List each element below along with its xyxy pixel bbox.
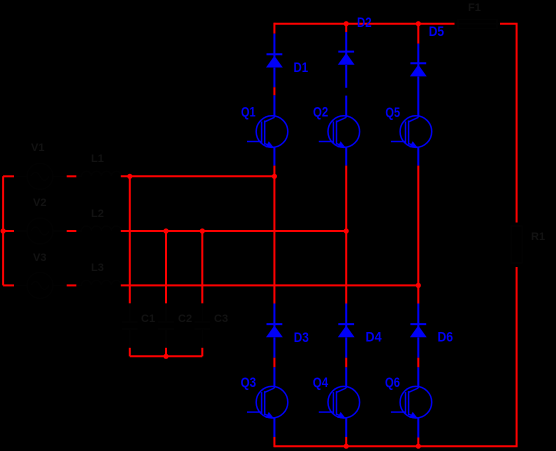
inductor L1 (near-black) xyxy=(76,171,121,176)
wire: leg1 red link D3-Q3 xyxy=(273,358,275,368)
svg-text:Q6: Q6 xyxy=(385,374,400,390)
wire: leg1 pin below Q3 xyxy=(273,418,275,437)
svg-text:V2: V2 xyxy=(33,197,46,209)
capacitor C2 (near-black) xyxy=(158,303,174,347)
svg-text:Q2: Q2 xyxy=(313,104,328,120)
wire: leg3 pin above D6 xyxy=(417,304,419,325)
transistor Q4 xyxy=(319,386,360,418)
wire: leg3 bottom stub xyxy=(417,438,419,448)
svg-text:F1: F1 xyxy=(468,2,481,14)
capacitor C3 (near-black) xyxy=(194,303,210,347)
transistor Q5 xyxy=(391,116,432,148)
node: phase B / C3 junction xyxy=(200,228,205,233)
wire: leg1 pin below D1 xyxy=(273,68,275,88)
diode D2 xyxy=(338,52,355,65)
wire: leg1 red link D1-Q1 xyxy=(273,87,275,95)
wire: V1 output stub xyxy=(67,175,77,177)
wire: C1 bottom stub xyxy=(129,348,131,357)
transistor Q2 xyxy=(319,116,360,148)
svg-text:Q3: Q3 xyxy=(241,374,257,390)
wire: C2 bottom stub xyxy=(165,348,167,357)
capacitor C1 (near-black) xyxy=(122,303,138,347)
svg-text:D3: D3 xyxy=(294,329,309,345)
node: star point junction xyxy=(163,354,168,359)
svg-text:C1: C1 xyxy=(141,313,155,325)
svg-text:C3: C3 xyxy=(214,313,228,325)
svg-text:L3: L3 xyxy=(91,262,104,274)
svg-text:D6: D6 xyxy=(438,329,454,345)
wire: left neutral rail vertical xyxy=(2,176,4,285)
inductor L2 (near-black) xyxy=(76,226,121,231)
wire: leg2 pin above D2 xyxy=(345,32,347,52)
source V3 (near-black) xyxy=(14,272,67,298)
node: bottom bus / leg 3 junction xyxy=(416,444,421,449)
svg-text:D4: D4 xyxy=(366,329,382,345)
wire: V2 output stub xyxy=(67,230,77,232)
wire: leg3 top stub xyxy=(417,23,419,44)
wire: leg1 pin above D1 xyxy=(273,34,275,55)
fuse F1 (near-black) xyxy=(455,20,500,29)
source V1 (drawn in near-black) xyxy=(14,163,67,189)
wire: leg1 mid red section xyxy=(273,166,275,304)
wire: neutral stub to V1 xyxy=(3,175,14,177)
node: phase B / leg 2 junction xyxy=(344,228,349,233)
wire: top DC bus xyxy=(274,23,454,25)
node: top bus / leg 2 junction xyxy=(344,21,349,26)
source V2 (near-black) xyxy=(14,218,67,244)
diode D6 xyxy=(410,324,427,337)
transistor Q1 xyxy=(247,116,288,148)
svg-text:Q1: Q1 xyxy=(241,104,256,120)
wire: leg1 pin below D3 xyxy=(273,338,275,358)
wire: neutral stub to V3 xyxy=(3,284,14,286)
wire: leg2 pin below D4 xyxy=(345,338,347,358)
wire: top bus right section xyxy=(500,24,517,223)
wire: leg2 top stub xyxy=(345,23,347,32)
wire: right rail lower section xyxy=(274,267,516,446)
inductor L3 (near-black) xyxy=(76,280,121,285)
wire: V3 output stub xyxy=(67,284,77,286)
svg-text:R1: R1 xyxy=(531,231,545,243)
wire: leg1 pin above Q1 xyxy=(273,95,275,116)
svg-text:Q5: Q5 xyxy=(385,104,400,120)
wire: leg3 pin below D6 xyxy=(417,338,419,358)
wire: leg2 pin below Q2 xyxy=(345,147,347,165)
svg-text:D5: D5 xyxy=(429,23,445,39)
wire: neutral stub to V2 xyxy=(3,230,14,232)
wire: leg3 red link D6-Q6 xyxy=(417,358,419,368)
wire: capacitor star bus xyxy=(130,355,203,357)
diode D1 xyxy=(266,54,283,67)
svg-text:C2: C2 xyxy=(178,313,192,325)
wire: leg3 pin below Q6 xyxy=(417,418,419,438)
wire: C1 drop xyxy=(129,176,131,303)
wire: leg3 pin above D5 xyxy=(417,44,419,64)
wire: leg2 pin below Q4 xyxy=(345,418,347,437)
wire: C3 bottom stub xyxy=(201,348,203,357)
wire: leg2 pin above Q2 xyxy=(345,96,347,116)
wire: C3 drop xyxy=(201,231,203,303)
wire: leg2 pin above D4 xyxy=(345,304,347,325)
svg-text:D2: D2 xyxy=(357,14,372,30)
transistor Q6 xyxy=(391,386,432,418)
diode D3 xyxy=(266,324,283,337)
wire: leg2 mid red section xyxy=(345,166,347,304)
wire: leg1 top stub xyxy=(273,23,275,34)
wire: leg1 bottom stub xyxy=(273,437,275,447)
wire: leg2 red link D4-Q4 xyxy=(345,358,347,368)
node: phase C / leg 3 junction xyxy=(416,283,421,288)
svg-text:V1: V1 xyxy=(31,142,44,154)
wire: leg2 pin above Q4 xyxy=(345,367,347,386)
resistor R1 load (near-black) xyxy=(511,226,522,263)
diode D5 xyxy=(410,63,427,76)
wire: phase A row xyxy=(121,175,275,177)
wire: leg3 pin below D5 xyxy=(417,77,419,116)
wire: phase B row xyxy=(121,230,346,232)
transistor Q3 xyxy=(247,386,288,418)
node: phase A / leg 1 junction xyxy=(272,174,277,179)
svg-text:Q4: Q4 xyxy=(313,374,329,390)
svg-text:L1: L1 xyxy=(91,153,104,165)
wire: leg2 pin below D2 xyxy=(345,65,347,88)
wire: leg1 pin above Q3 xyxy=(273,367,275,386)
node: neutral junction dot xyxy=(1,228,6,233)
node: phase A / C1 junction xyxy=(127,174,132,179)
wire: leg1 pin above D3 xyxy=(273,304,275,325)
svg-text:L2: L2 xyxy=(91,208,104,220)
wire: C2 drop xyxy=(165,231,167,303)
node: bottom bus / leg 2 junction xyxy=(344,444,349,449)
wire: leg3 mid red section xyxy=(417,166,419,304)
svg-text:V3: V3 xyxy=(33,252,46,264)
node: phase B / C2 junction xyxy=(163,228,168,233)
diode D4 xyxy=(338,324,355,337)
wire: leg3 pin above Q6 xyxy=(417,367,419,386)
wire: phase C row xyxy=(121,284,419,286)
svg-text:D1: D1 xyxy=(294,59,309,75)
wire: leg1 pin below Q1 xyxy=(273,147,275,165)
wire: leg2 bottom stub xyxy=(345,437,347,447)
node: top bus / leg 3 junction xyxy=(416,21,421,26)
wire: leg3 pin below Q5 xyxy=(417,147,419,165)
